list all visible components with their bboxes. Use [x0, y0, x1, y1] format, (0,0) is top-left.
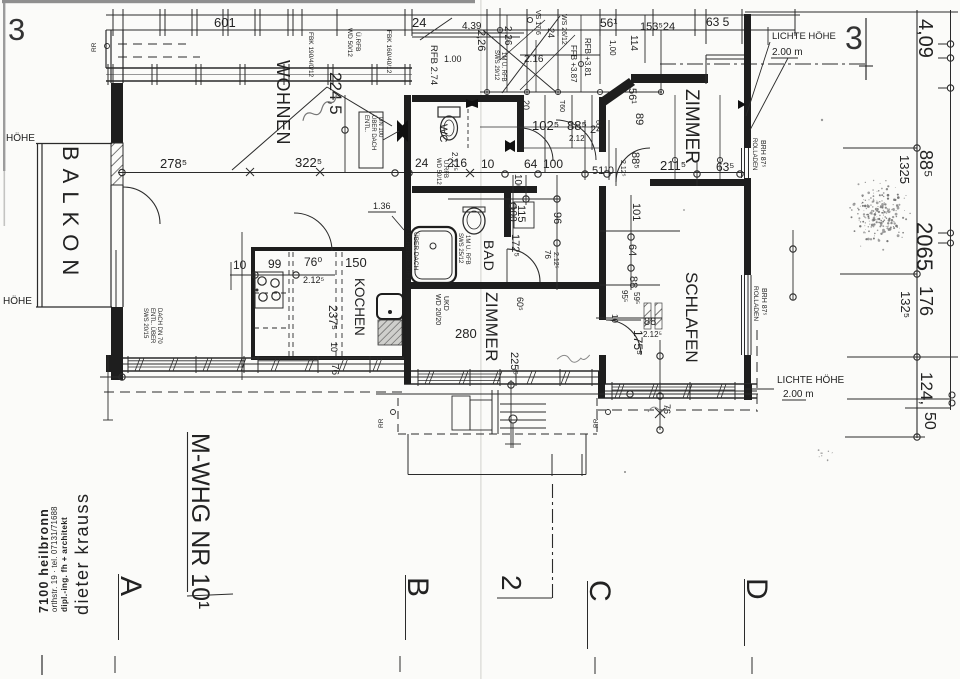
- svg-text:RFB +3.81: RFB +3.81: [583, 38, 592, 77]
- svg-text:2.12⁵: 2.12⁵: [450, 152, 459, 171]
- svg-text:88: 88: [644, 316, 656, 328]
- svg-text:24: 24: [412, 15, 426, 30]
- svg-text:4,09: 4,09: [914, 19, 936, 58]
- svg-text:76: 76: [543, 250, 552, 259]
- extra top-middle density: [467, 95, 469, 150]
- svg-text:102⁵: 102⁵: [532, 118, 559, 133]
- leader diagonals: [232, 87, 327, 170]
- svg-text:WS 26/12: WS 26/12: [560, 14, 567, 45]
- svg-text:FBK 190/4/0/12: FBK 190/4/0/12: [307, 32, 314, 78]
- svg-text:76⁰: 76⁰: [304, 255, 322, 269]
- svg-text:95⁵: 95⁵: [620, 290, 629, 302]
- sink unit: [377, 294, 403, 319]
- svg-text:99: 99: [268, 257, 282, 271]
- axis 2 corner: [551, 454, 553, 476]
- svg-text:dieter krauss: dieter krauss: [72, 492, 92, 615]
- top dimension chain: [106, 14, 800, 16]
- svg-text:FFB +3.87: FFB +3.87: [569, 45, 578, 83]
- svg-text:51¹0: 51¹0: [592, 165, 614, 177]
- svg-text:10: 10: [233, 258, 247, 272]
- svg-text:278⁵: 278⁵: [160, 156, 187, 171]
- schlafen west wall: [599, 186, 606, 320]
- svg-text:76: 76: [662, 404, 672, 414]
- svg-text:BALKON: BALKON: [58, 146, 83, 283]
- bad door arc: [507, 249, 540, 282]
- speckle noise patch right: [876, 221, 878, 223]
- svg-text:1325: 1325: [897, 155, 912, 184]
- svg-text:BRH 87⁵: BRH 87⁵: [760, 288, 767, 316]
- svg-text:BRH 87⁵: BRH 87⁵: [759, 140, 766, 168]
- svg-text:BAD: BAD: [481, 240, 497, 272]
- zimmer1 walls: [631, 74, 708, 83]
- svg-text:63 5: 63 5: [706, 15, 730, 29]
- grid line A: [118, 574, 120, 640]
- svg-text:124,: 124,: [917, 372, 936, 405]
- svg-text:KÜCHENABLUFT: KÜCHENABLUFT: [404, 228, 412, 280]
- svg-text:2065: 2065: [912, 222, 937, 271]
- svg-text:2.00 m: 2.00 m: [783, 389, 814, 400]
- schlafen door arc: [606, 320, 641, 355]
- svg-text:WD 20/20: WD 20/20: [434, 294, 441, 325]
- svg-text:10: 10: [481, 157, 495, 171]
- svg-text:76: 76: [329, 364, 340, 376]
- svg-text:280: 280: [455, 326, 477, 341]
- kitchen room: [253, 249, 404, 358]
- svg-text:D: D: [740, 578, 773, 600]
- wc top band: [412, 32, 524, 34]
- svg-text:64: 64: [626, 244, 638, 256]
- balcony door arc: [123, 187, 160, 224]
- svg-text:HÖHE: HÖHE: [3, 295, 32, 307]
- svg-text:ZIMMER: ZIMMER: [681, 89, 702, 164]
- svg-text:2.12: 2.12: [569, 134, 585, 143]
- svg-text:RR: RR: [378, 418, 385, 428]
- svg-text:WD 50/12: WD 50/12: [346, 28, 353, 57]
- svg-text:101: 101: [630, 203, 642, 221]
- washbasin: [463, 207, 485, 212]
- right dimension chain: [916, 10, 918, 438]
- dimension line below wall: [100, 376, 404, 378]
- door jambs hatched: [644, 303, 651, 329]
- svg-text:SWS 20/15: SWS 20/15: [142, 308, 148, 339]
- divider wall wohnen: [404, 95, 411, 380]
- svg-text:WOHNEN: WOHNEN: [273, 60, 293, 145]
- svg-text:2.12⁵: 2.12⁵: [643, 330, 662, 339]
- svg-text:RFB 2.74: RFB 2.74: [428, 45, 439, 85]
- grid line C: [587, 581, 589, 649]
- svg-text:2.00 m: 2.00 m: [772, 47, 803, 58]
- svg-text:C: C: [583, 580, 616, 602]
- svg-text:1.36: 1.36: [373, 201, 391, 211]
- extension lines center top: [486, 15, 488, 95]
- svg-text:WC: WC: [437, 124, 449, 142]
- svg-text:10: 10: [329, 342, 339, 352]
- terrace solid outline: [407, 434, 409, 475]
- door to zimmer1: [616, 148, 650, 182]
- svg-text:FBK 160/40/12: FBK 160/40/12: [385, 30, 392, 74]
- svg-text:A: A: [114, 576, 147, 596]
- svg-text:88⁵: 88⁵: [916, 150, 936, 177]
- svg-text:2,26: 2,26: [502, 26, 513, 46]
- right exterior wall: [744, 14, 751, 148]
- svg-text:ÜBER DACH: ÜBER DACH: [370, 115, 377, 150]
- toilet: [438, 107, 460, 117]
- axis 3 line right: [865, 18, 867, 80]
- svg-text:ÜBER DACH: ÜBER DACH: [412, 232, 420, 271]
- svg-text:132⁵: 132⁵: [898, 291, 913, 318]
- roof overhang dashed: [104, 391, 404, 393]
- svg-text:T60: T60: [558, 100, 565, 112]
- svg-text:ROLLADEN: ROLLADEN: [752, 286, 759, 321]
- wc door arc: [520, 128, 553, 161]
- bottom exterior wall right section: [598, 383, 757, 385]
- svg-text:2.12⁵: 2.12⁵: [619, 160, 626, 177]
- svg-text:DN 100: DN 100: [377, 117, 383, 138]
- svg-text:24: 24: [546, 28, 556, 38]
- svg-text:SWS 25/12: SWS 25/12: [457, 233, 463, 264]
- svg-text:KOCHEN: KOCHEN: [352, 278, 367, 336]
- entry steps: [452, 396, 470, 430]
- svg-text:WD 50/12: WD 50/12: [435, 158, 441, 185]
- scan edge artifacts: [2, 0, 475, 3]
- svg-text:ZIMMER: ZIMMER: [482, 292, 501, 362]
- svg-text:172⁵: 172⁵: [509, 234, 521, 257]
- svg-text:88⁵: 88⁵: [629, 152, 641, 169]
- svg-text:3: 3: [845, 20, 863, 56]
- svg-text:2: 2: [496, 575, 527, 591]
- bottom exterior wall left section: [106, 357, 404, 359]
- svg-text:2.12⁵: 2.12⁵: [552, 252, 559, 269]
- svg-text:1M U. RFB: 1M U. RFB: [464, 235, 470, 265]
- svg-text:Ü.RFB: Ü.RFB: [354, 32, 362, 52]
- svg-text:56¹: 56¹: [600, 16, 617, 30]
- svg-text:114: 114: [628, 35, 639, 51]
- svg-text:24: 24: [415, 156, 429, 170]
- grid line B: [405, 575, 407, 640]
- svg-text:DACH DN 70: DACH DN 70: [156, 308, 162, 344]
- svg-text:59⁵: 59⁵: [632, 292, 641, 304]
- svg-text:60⁵: 60⁵: [515, 297, 525, 311]
- bad walls: [412, 186, 537, 193]
- svg-text:SWS 29/12: SWS 29/12: [493, 50, 499, 81]
- svg-text:ENTL. ÜBER: ENTL. ÜBER: [149, 308, 156, 344]
- svg-text:UKD: UKD: [442, 296, 449, 311]
- svg-text:RR: RR: [91, 42, 98, 52]
- bottom exterior wall mid section: [404, 370, 600, 372]
- svg-text:322⁵: 322⁵: [295, 155, 322, 170]
- svg-text:HÖHE: HÖHE: [6, 132, 35, 144]
- dim line 76 below schlafen: [659, 340, 661, 430]
- kitchen door arc: [294, 213, 332, 251]
- dashed lines: [118, 43, 186, 45]
- svg-text:1,00: 1,00: [608, 40, 617, 56]
- svg-text:B: B: [401, 577, 434, 597]
- svg-text:88: 88: [627, 276, 639, 288]
- svg-text:10: 10: [610, 314, 619, 323]
- wc walls: [412, 95, 524, 102]
- svg-text:ENTL.: ENTL.: [363, 115, 369, 132]
- svg-text:1M U. RFB: 1M U. RFB: [500, 52, 506, 82]
- window lines bottom walls: [128, 360, 244, 362]
- main dimension line: [118, 172, 744, 174]
- svg-text:dipl.-ing. fh + architekt: dipl.-ing. fh + architekt: [60, 517, 69, 612]
- svg-text:LICHTE HÖHE: LICHTE HÖHE: [777, 374, 845, 386]
- pencil note: [298, 94, 341, 121]
- right wall dimension extensions: [792, 230, 794, 300]
- axis dash-dot: [660, 63, 866, 65]
- svg-text:50: 50: [921, 412, 938, 430]
- terrace bump dashed outline: [397, 398, 399, 434]
- dim 115 box: [514, 202, 534, 228]
- kitchen dashed layout lines: [288, 252, 290, 356]
- svg-text:89: 89: [633, 113, 645, 125]
- grid line D: [744, 579, 746, 646]
- svg-text:7100 heilbronn: 7100 heilbronn: [37, 508, 51, 613]
- svg-text:601: 601: [214, 15, 236, 30]
- svg-text:M-WHG NR 10¹: M-WHG NR 10¹: [186, 433, 214, 609]
- svg-text:2.12⁵: 2.12⁵: [303, 275, 325, 285]
- bathtub: [411, 227, 456, 283]
- svg-text:1.00: 1.00: [444, 54, 462, 64]
- svg-text:LICHTE HÖHE: LICHTE HÖHE: [772, 31, 836, 42]
- wc door marks: [466, 99, 478, 108]
- svg-text:64: 64: [524, 157, 538, 171]
- svg-text:orthstr. 19 · tel. 07131/71688: orthstr. 19 · tel. 07131/71688: [50, 506, 59, 612]
- svg-text:150: 150: [345, 255, 367, 270]
- svg-text:56¹: 56¹: [626, 88, 638, 104]
- svg-text:115: 115: [515, 205, 527, 223]
- svg-text:60: 60: [594, 120, 601, 128]
- left exterior wall: [111, 83, 123, 143]
- svg-text:176: 176: [916, 286, 936, 316]
- more clutter top center: [506, 15, 508, 92]
- extra hall lines: [591, 95, 593, 150]
- svg-text:3: 3: [8, 12, 25, 47]
- svg-text:VS 17,6: VS 17,6: [534, 10, 541, 35]
- tick left bottom: [41, 655, 43, 675]
- svg-text:U.RFB: U.RFB: [442, 160, 448, 178]
- stove: [255, 272, 283, 308]
- svg-text:ROLLADEN: ROLLADEN: [751, 138, 757, 170]
- hatch ticks bottom walls: [135, 358, 140, 371]
- svg-text:2.16: 2.16: [524, 54, 544, 65]
- vent box: [359, 112, 383, 168]
- svg-text:SCHLAFEN: SCHLAFEN: [682, 272, 701, 363]
- svg-text:237⁵: 237⁵: [326, 305, 340, 330]
- svg-text:224,5: 224,5: [326, 72, 345, 115]
- window band wohnen north wall: [106, 67, 412, 69]
